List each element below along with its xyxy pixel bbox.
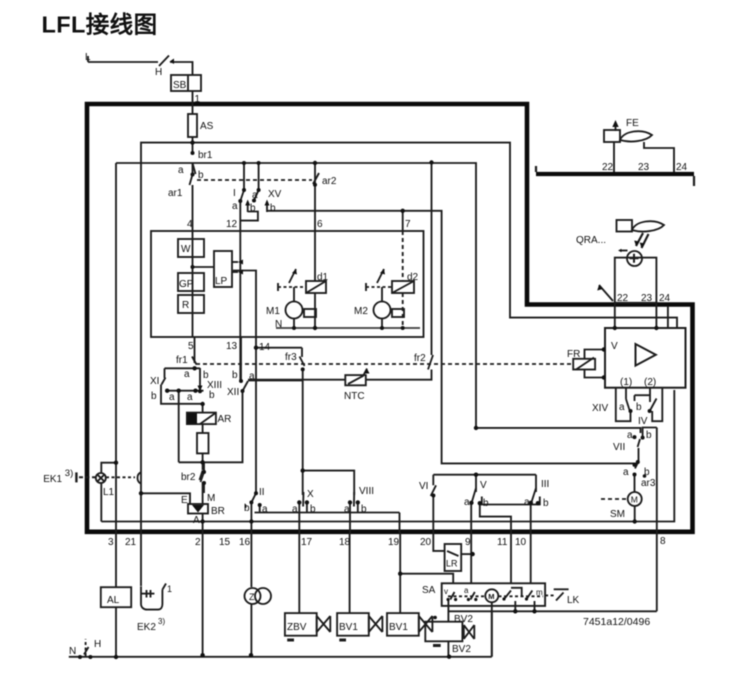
svg-text:a: a bbox=[627, 430, 633, 441]
svg-text:SM: SM bbox=[610, 509, 625, 520]
svg-text:H: H bbox=[94, 639, 101, 650]
svg-text:M: M bbox=[488, 592, 494, 601]
svg-text:24: 24 bbox=[676, 162, 688, 173]
svg-text:BV1: BV1 bbox=[339, 622, 358, 633]
svg-text:M1: M1 bbox=[266, 306, 280, 317]
svg-text:22: 22 bbox=[602, 162, 614, 173]
svg-text:b: b bbox=[483, 498, 489, 509]
svg-text:GP: GP bbox=[179, 279, 194, 290]
svg-text:br1: br1 bbox=[198, 150, 213, 161]
svg-text:BV2: BV2 bbox=[454, 614, 473, 625]
svg-text:M2: M2 bbox=[354, 306, 368, 317]
svg-text:A: A bbox=[193, 515, 200, 526]
svg-text:N: N bbox=[275, 319, 282, 330]
svg-text:VIII: VIII bbox=[359, 486, 374, 497]
svg-text:ar3: ar3 bbox=[641, 478, 656, 489]
svg-text:17: 17 bbox=[301, 537, 313, 548]
svg-text:10: 10 bbox=[515, 537, 527, 548]
svg-text:ZBV: ZBV bbox=[287, 622, 307, 633]
svg-text:15: 15 bbox=[219, 537, 231, 548]
svg-text:EK1: EK1 bbox=[43, 474, 62, 485]
svg-text:3: 3 bbox=[108, 537, 114, 548]
svg-text:5: 5 bbox=[188, 341, 194, 352]
svg-text:IV: IV bbox=[638, 416, 648, 427]
svg-text:b: b bbox=[310, 504, 316, 515]
svg-text:XI: XI bbox=[150, 376, 159, 387]
svg-text:a: a bbox=[623, 467, 629, 478]
svg-text:QRA...: QRA... bbox=[576, 235, 606, 246]
svg-text:V: V bbox=[480, 480, 487, 491]
svg-text:b: b bbox=[209, 390, 215, 401]
svg-text:6: 6 bbox=[317, 219, 323, 230]
svg-text:b: b bbox=[244, 503, 250, 514]
svg-text:V: V bbox=[611, 341, 618, 352]
svg-text:LFL接线图: LFL接线图 bbox=[42, 12, 158, 38]
svg-text:b: b bbox=[646, 430, 652, 441]
svg-text:LP: LP bbox=[215, 276, 228, 287]
svg-text:M: M bbox=[207, 493, 215, 504]
svg-text:11: 11 bbox=[497, 537, 508, 548]
svg-text:LK: LK bbox=[567, 595, 580, 606]
svg-text:a: a bbox=[524, 497, 530, 508]
svg-text:a: a bbox=[232, 201, 238, 212]
svg-text:VI: VI bbox=[419, 481, 428, 492]
svg-text:FE: FE bbox=[626, 118, 639, 129]
svg-text:3): 3) bbox=[65, 468, 73, 479]
svg-text:a: a bbox=[187, 392, 193, 403]
svg-text:I: I bbox=[233, 188, 236, 199]
svg-text:(2): (2) bbox=[644, 377, 656, 388]
svg-text:24: 24 bbox=[659, 293, 671, 304]
svg-text:EK2: EK2 bbox=[137, 622, 156, 633]
svg-text:b: b bbox=[151, 391, 157, 402]
svg-text:E: E bbox=[181, 495, 188, 506]
svg-text:b: b bbox=[270, 203, 276, 214]
svg-text:b: b bbox=[361, 504, 367, 515]
svg-text:a: a bbox=[178, 165, 184, 176]
svg-text:III: III bbox=[541, 479, 549, 490]
svg-text:12: 12 bbox=[226, 219, 238, 230]
svg-text:b: b bbox=[636, 402, 642, 413]
svg-text:br2: br2 bbox=[181, 472, 196, 483]
svg-text:a: a bbox=[262, 504, 268, 515]
svg-text:23: 23 bbox=[641, 293, 653, 304]
svg-text:13: 13 bbox=[226, 341, 238, 352]
svg-text:a: a bbox=[184, 369, 190, 380]
svg-text:m: m bbox=[536, 588, 543, 597]
svg-text:23: 23 bbox=[638, 162, 650, 173]
svg-text:d2: d2 bbox=[407, 272, 419, 283]
svg-text:X: X bbox=[307, 489, 314, 500]
svg-text:fr1: fr1 bbox=[176, 355, 188, 366]
svg-text:4: 4 bbox=[187, 219, 193, 230]
svg-text:BV2: BV2 bbox=[452, 644, 471, 655]
svg-text:M: M bbox=[631, 495, 638, 505]
svg-text:VII: VII bbox=[613, 442, 625, 453]
svg-text:21: 21 bbox=[125, 537, 137, 548]
svg-text:3): 3) bbox=[158, 617, 165, 626]
svg-text:7451a12/0496: 7451a12/0496 bbox=[583, 616, 650, 628]
svg-text:2: 2 bbox=[195, 537, 201, 548]
svg-text:v: v bbox=[444, 587, 448, 596]
svg-text:BV1: BV1 bbox=[389, 622, 408, 633]
svg-text:XIV: XIV bbox=[592, 403, 608, 414]
svg-text:fr2: fr2 bbox=[414, 353, 426, 364]
svg-text:a: a bbox=[249, 371, 255, 382]
svg-text:b: b bbox=[198, 170, 204, 181]
svg-text:8: 8 bbox=[660, 536, 666, 547]
svg-text:L1: L1 bbox=[103, 487, 115, 498]
svg-text:b: b bbox=[250, 203, 256, 214]
svg-text:22: 22 bbox=[617, 293, 629, 304]
svg-text:Z: Z bbox=[249, 592, 255, 602]
svg-text:18: 18 bbox=[339, 537, 351, 548]
svg-text:b: b bbox=[232, 370, 238, 381]
svg-text:SA: SA bbox=[422, 585, 436, 596]
svg-text:1: 1 bbox=[195, 94, 201, 105]
svg-text:FR: FR bbox=[567, 349, 580, 360]
svg-text:a: a bbox=[169, 392, 175, 403]
svg-text:a: a bbox=[292, 504, 298, 515]
svg-text:a: a bbox=[464, 497, 470, 508]
svg-text:19: 19 bbox=[388, 537, 400, 548]
svg-text:1: 1 bbox=[167, 584, 172, 594]
svg-text:a: a bbox=[464, 586, 469, 595]
svg-text:b: b bbox=[644, 467, 650, 478]
svg-text:BR: BR bbox=[211, 506, 225, 517]
svg-text:R: R bbox=[182, 300, 189, 311]
svg-text:d1: d1 bbox=[317, 272, 329, 283]
svg-text:ar2: ar2 bbox=[322, 176, 337, 187]
svg-text:14: 14 bbox=[259, 342, 271, 353]
svg-text:AS: AS bbox=[200, 121, 214, 132]
svg-text:16: 16 bbox=[239, 537, 251, 548]
svg-text:LR: LR bbox=[446, 559, 458, 569]
svg-text:b: b bbox=[543, 498, 549, 509]
svg-text:N: N bbox=[69, 646, 76, 657]
svg-text:SB: SB bbox=[173, 80, 187, 91]
svg-text:XV: XV bbox=[268, 189, 282, 200]
svg-text:7: 7 bbox=[405, 219, 411, 230]
svg-text:a: a bbox=[619, 402, 625, 413]
svg-text:AL: AL bbox=[107, 595, 120, 606]
svg-text:ar1: ar1 bbox=[168, 188, 183, 199]
svg-text:fr3: fr3 bbox=[285, 352, 297, 363]
svg-text:9: 9 bbox=[465, 537, 471, 548]
svg-text:a: a bbox=[344, 504, 350, 515]
svg-text:H: H bbox=[155, 67, 162, 78]
svg-text:a: a bbox=[252, 190, 258, 201]
svg-text:W: W bbox=[181, 244, 191, 255]
svg-text:L: L bbox=[85, 52, 91, 63]
svg-text:20: 20 bbox=[420, 537, 432, 548]
svg-text:AR: AR bbox=[218, 414, 232, 425]
svg-text:II: II bbox=[259, 487, 265, 498]
svg-text:(1): (1) bbox=[620, 377, 632, 388]
svg-text:NTC: NTC bbox=[344, 391, 365, 402]
svg-text:XII: XII bbox=[227, 387, 239, 398]
